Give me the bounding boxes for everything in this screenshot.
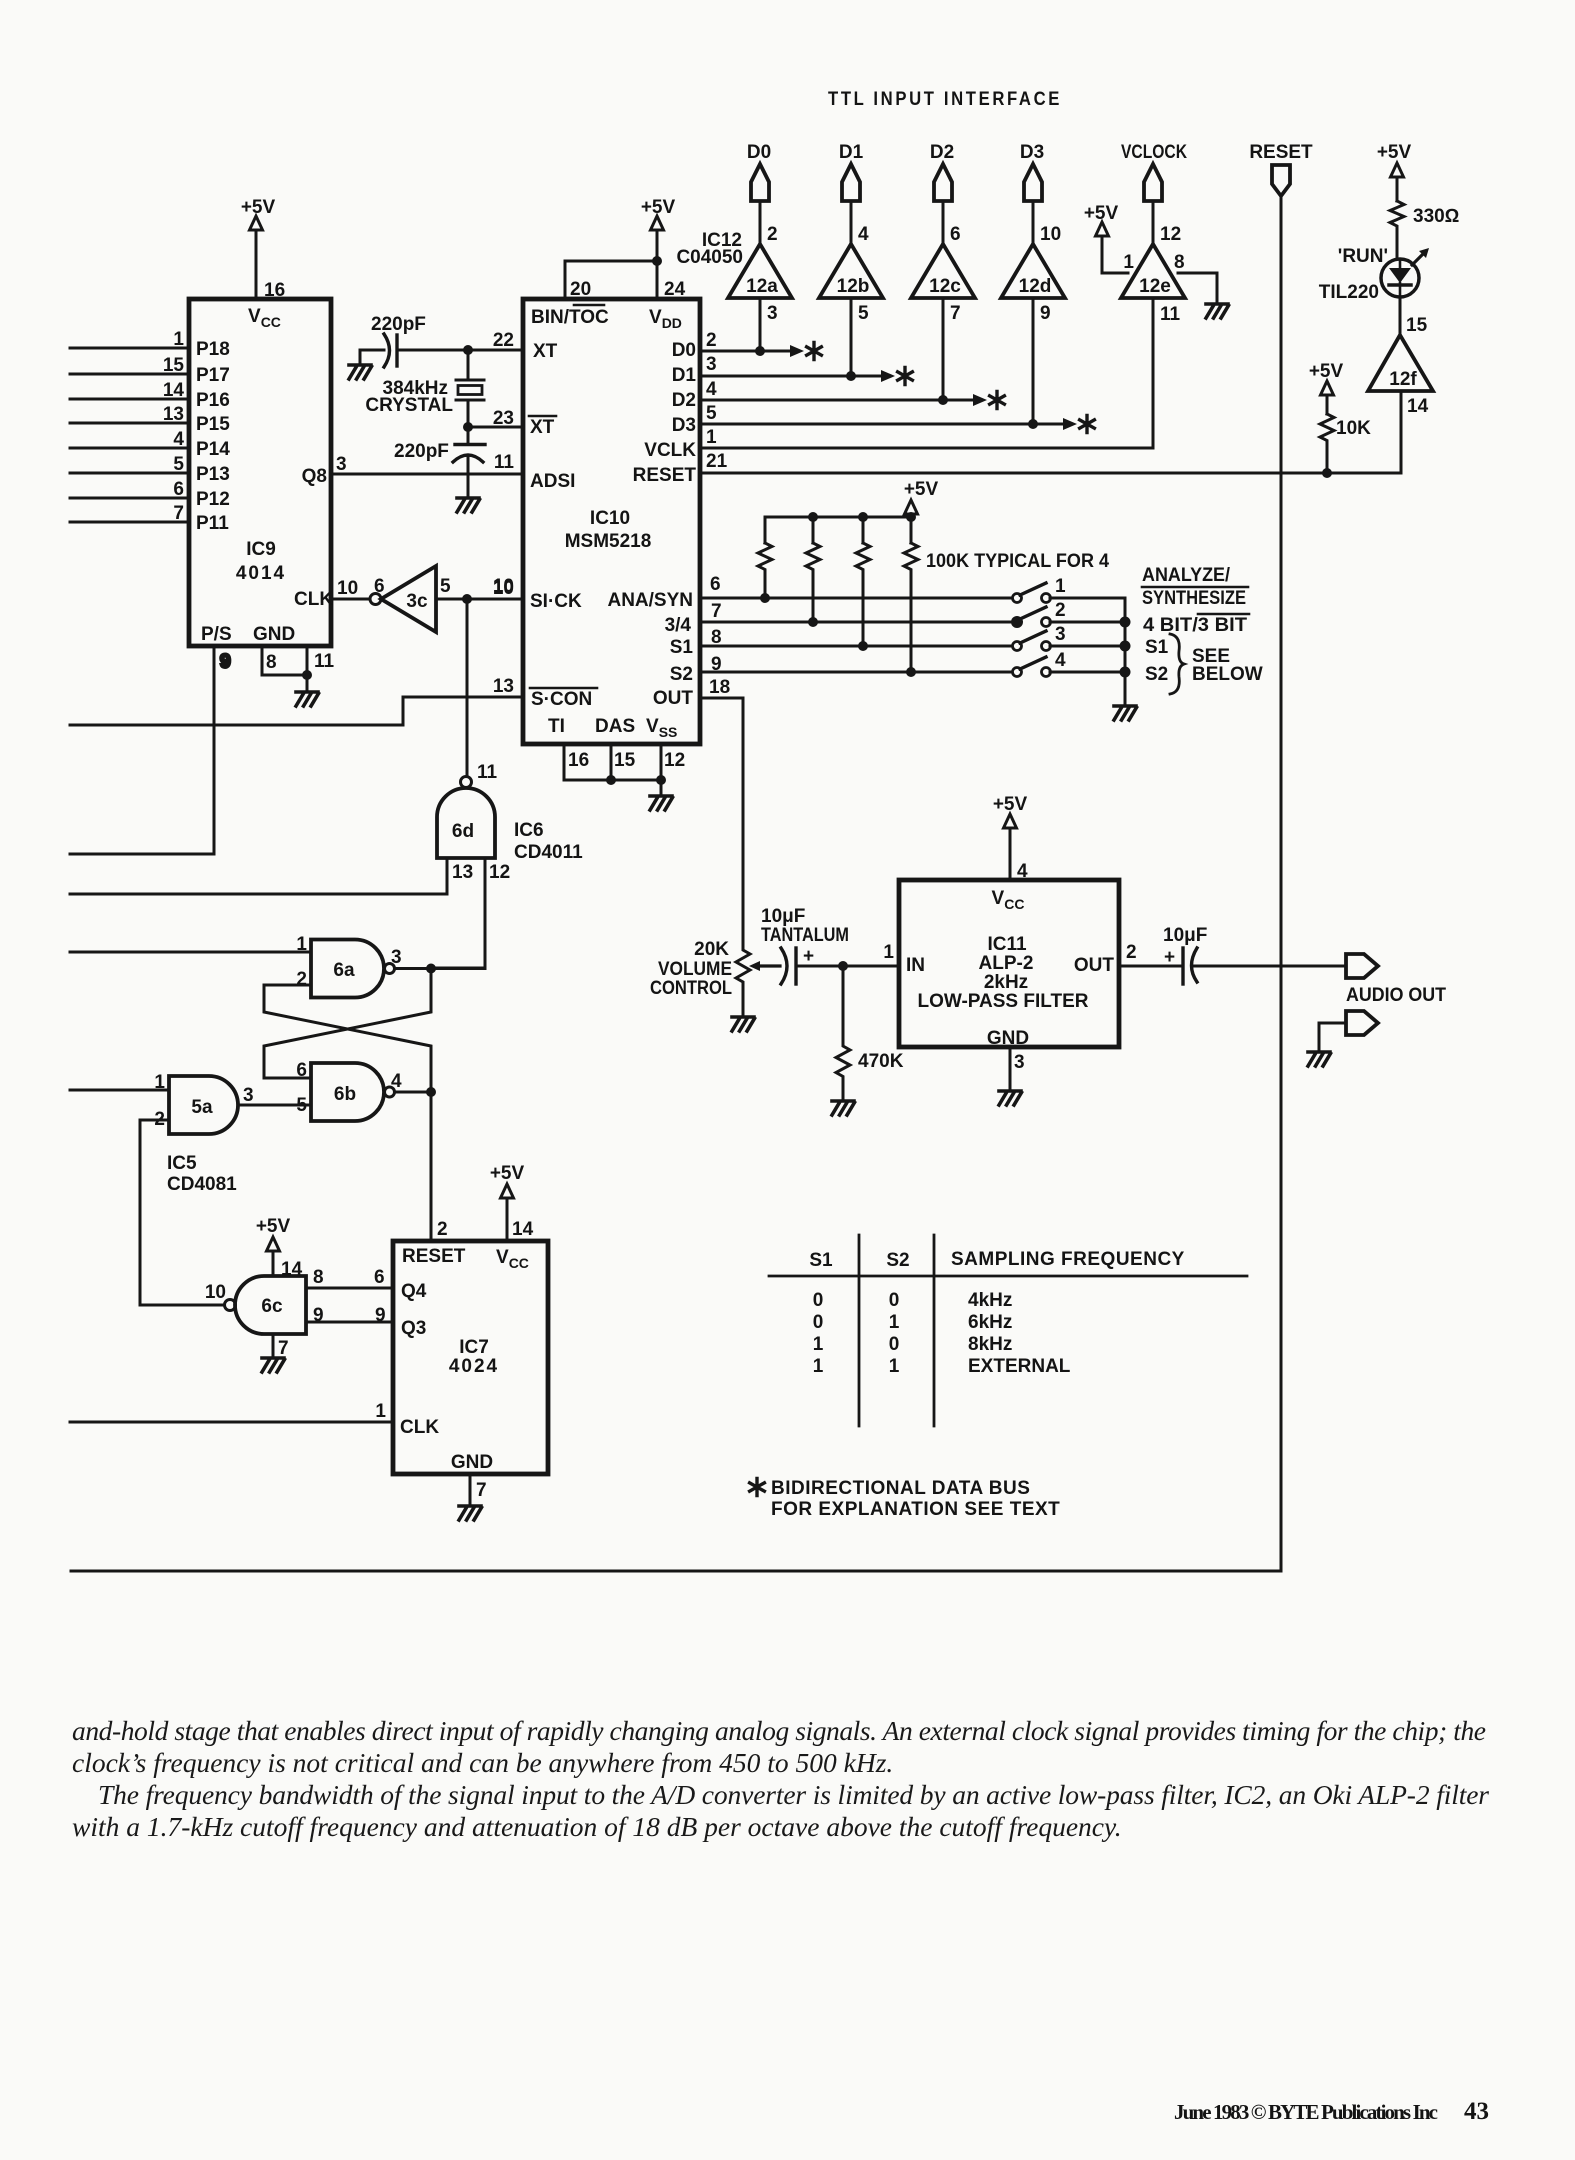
svg-text:CONTROL: CONTROL bbox=[650, 978, 732, 999]
svg-text:IC9: IC9 bbox=[246, 539, 276, 560]
svg-text:ANALYZE/: ANALYZE/ bbox=[1142, 565, 1231, 586]
label 4BIT/3BIT bbox=[1143, 614, 1249, 636]
wire Q8 to ADSI bbox=[331, 454, 523, 475]
wire 6a pin1 to left edge bbox=[70, 951, 311, 954]
svg-text:D3: D3 bbox=[1020, 142, 1044, 163]
svg-text:330Ω: 330Ω bbox=[1413, 206, 1459, 227]
wire SI.CK junction down to 6d output bbox=[466, 599, 469, 776]
svg-text:CRYSTAL: CRYSTAL bbox=[365, 395, 453, 416]
wire switch common bus to ground bbox=[1120, 598, 1131, 706]
switch 1 ANALYZE/SYNTHESIZE bbox=[1013, 576, 1126, 603]
resistor 100K #4 bbox=[904, 543, 918, 672]
svg-text:2: 2 bbox=[296, 969, 307, 990]
svg-text:OUT: OUT bbox=[653, 688, 694, 709]
buffer 12b bbox=[819, 224, 883, 324]
svg-text:5: 5 bbox=[706, 403, 717, 424]
svg-text:1: 1 bbox=[883, 942, 894, 963]
svg-text:6b: 6b bbox=[334, 1084, 356, 1105]
svg-text:S1: S1 bbox=[1145, 637, 1169, 658]
connector AUDIO OUT bbox=[1346, 954, 1446, 1006]
nand gate 6d (IC6) bbox=[437, 762, 510, 883]
svg-text:8: 8 bbox=[1174, 252, 1185, 273]
ground below 220pF top bbox=[349, 365, 372, 379]
svg-text:6: 6 bbox=[374, 576, 385, 597]
resistor 10K bbox=[1320, 414, 1371, 473]
svg-text:D0: D0 bbox=[747, 142, 771, 163]
svg-text:0: 0 bbox=[889, 1290, 900, 1311]
svg-text:5: 5 bbox=[858, 303, 869, 324]
svg-text:VCLK: VCLK bbox=[644, 440, 696, 461]
connector VCLOCK bbox=[1121, 142, 1187, 244]
svg-text:12b: 12b bbox=[837, 276, 870, 297]
svg-text:14: 14 bbox=[1407, 396, 1429, 417]
svg-text:3/4: 3/4 bbox=[665, 615, 692, 636]
svg-text:13: 13 bbox=[493, 676, 514, 697]
svg-text:P17: P17 bbox=[196, 365, 230, 386]
svg-text:1: 1 bbox=[375, 1401, 386, 1422]
svg-text:3c: 3c bbox=[406, 591, 428, 612]
svg-text:3: 3 bbox=[243, 1085, 254, 1106]
connector audio ground return bbox=[1319, 1011, 1378, 1052]
node 6a output bbox=[395, 964, 486, 974]
svg-text:XT: XT bbox=[533, 341, 558, 362]
svg-text:P18: P18 bbox=[196, 339, 230, 360]
svg-text:2: 2 bbox=[706, 330, 717, 351]
wire S.CON pin13 route bbox=[70, 697, 523, 725]
wire data row D3 pin5 bbox=[700, 298, 1094, 433]
node IN junction bbox=[838, 961, 848, 971]
svg-text:'RUN': 'RUN' bbox=[1338, 246, 1388, 267]
paragraph text bbox=[72, 1715, 1489, 1842]
ground VSS pin12 bbox=[650, 796, 673, 810]
svg-text:S2: S2 bbox=[670, 664, 693, 685]
connector RESET bbox=[1249, 142, 1313, 196]
svg-text:GND: GND bbox=[253, 624, 295, 645]
table sampling frequency bbox=[769, 1235, 1247, 1426]
label IC12 C04050 bbox=[676, 230, 743, 268]
svg-text:43: 43 bbox=[1464, 2098, 1489, 2125]
buffer 12c bbox=[911, 224, 975, 324]
wire 3/4 row pin7 bbox=[700, 617, 1013, 627]
svg-text:7: 7 bbox=[711, 601, 722, 622]
svg-text:D0: D0 bbox=[672, 340, 696, 361]
IC9 pin 9 P/S wire bbox=[70, 646, 231, 854]
wire RESET row pin21 to 12f pin14 bbox=[700, 391, 1401, 478]
svg-text:CLK: CLK bbox=[400, 1417, 439, 1438]
wire bottom bus bbox=[71, 1570, 1281, 1573]
svg-text:0: 0 bbox=[813, 1312, 824, 1333]
wire 5a output to 6b pin5 bbox=[238, 1104, 311, 1107]
svg-text:BIDIRECTIONAL DATA BUS: BIDIRECTIONAL DATA BUS bbox=[771, 1478, 1030, 1499]
svg-text:IC11: IC11 bbox=[987, 934, 1027, 955]
wire LED to 12f pin15 bbox=[1400, 297, 1428, 336]
connector D1 bbox=[839, 142, 864, 244]
+5V supply 330ohm bbox=[1377, 142, 1412, 201]
svg-text:VCLOCK: VCLOCK bbox=[1121, 142, 1187, 163]
svg-text:12e: 12e bbox=[1139, 276, 1171, 297]
svg-text:11: 11 bbox=[1160, 304, 1181, 325]
svg-text:IC7: IC7 bbox=[459, 1337, 489, 1358]
connector D2 bbox=[930, 142, 954, 244]
svg-text:VSS: VSS bbox=[646, 716, 677, 740]
svg-text:16: 16 bbox=[264, 280, 285, 301]
wire VCLK row pin1 to 12e pin11 bbox=[700, 298, 1153, 448]
svg-text:ALP-2: ALP-2 bbox=[979, 953, 1034, 974]
svg-text:6kHz: 6kHz bbox=[968, 1312, 1012, 1333]
svg-text:June 1983 © BYTE Publications: June 1983 © BYTE Publications Inc bbox=[1174, 2100, 1438, 2124]
connector D0 bbox=[747, 142, 771, 244]
IC7 pin numbers bbox=[375, 1219, 533, 1501]
svg-text:Q4: Q4 bbox=[401, 1281, 427, 1302]
svg-text:6c: 6c bbox=[261, 1296, 283, 1317]
svg-text:OUT: OUT bbox=[1074, 955, 1115, 976]
ground below 470K bbox=[832, 1101, 855, 1115]
svg-text:D1: D1 bbox=[672, 365, 697, 386]
svg-text:S1: S1 bbox=[809, 1250, 833, 1271]
svg-text:VCC: VCC bbox=[248, 306, 281, 330]
crystal 384kHz bbox=[365, 350, 484, 427]
svg-text:10μF: 10μF bbox=[761, 906, 805, 927]
ground below volume control bbox=[732, 1017, 755, 1031]
svg-text:10: 10 bbox=[205, 1282, 226, 1303]
svg-text:ANA/SYN: ANA/SYN bbox=[607, 590, 693, 611]
svg-text:P/S: P/S bbox=[201, 624, 232, 645]
resistor 100K #3 bbox=[856, 543, 870, 646]
svg-text:S·CON: S·CON bbox=[531, 689, 592, 710]
svg-text:12f: 12f bbox=[1389, 369, 1417, 390]
buffer 12e bbox=[1121, 224, 1185, 325]
svg-text:470K: 470K bbox=[858, 1051, 904, 1072]
+5V supply pullup rail bbox=[904, 479, 939, 517]
svg-text:+5V: +5V bbox=[641, 197, 676, 218]
svg-text:22: 22 bbox=[493, 330, 514, 351]
svg-text:CLK: CLK bbox=[294, 589, 333, 610]
node 6b output bbox=[395, 1087, 437, 1097]
svg-text:1: 1 bbox=[1055, 576, 1066, 597]
svg-text:XT: XT bbox=[530, 417, 555, 438]
svg-text:D2: D2 bbox=[672, 390, 696, 411]
footer bbox=[1174, 2098, 1489, 2125]
svg-text:2: 2 bbox=[437, 1219, 448, 1240]
svg-text:P12: P12 bbox=[196, 489, 230, 510]
svg-text:D1: D1 bbox=[839, 142, 864, 163]
svg-text:GND: GND bbox=[451, 1452, 493, 1473]
svg-text:14: 14 bbox=[512, 1219, 534, 1240]
svg-text:0: 0 bbox=[889, 1334, 900, 1355]
svg-text:IC10: IC10 bbox=[590, 508, 630, 529]
svg-text:1: 1 bbox=[813, 1334, 824, 1355]
switch 2 4BIT/3BIT bbox=[1011, 600, 1125, 628]
wire ANA/SYN row pin6 bbox=[700, 593, 1013, 603]
svg-text:20: 20 bbox=[570, 279, 591, 300]
svg-text:AUDIO OUT: AUDIO OUT bbox=[1346, 985, 1446, 1006]
svg-text:P15: P15 bbox=[196, 414, 230, 435]
svg-text:+5V: +5V bbox=[904, 479, 939, 500]
IC7 4024 counter bbox=[393, 1241, 548, 1474]
wire 6c pin8 to IC7 Q4 bbox=[306, 1267, 393, 1288]
ground below 220pF bottom bbox=[457, 498, 480, 512]
svg-text:CD4081: CD4081 bbox=[167, 1174, 237, 1195]
node XT pin22 bbox=[463, 345, 523, 355]
svg-text:S2: S2 bbox=[1145, 664, 1168, 685]
svg-text:100K TYPICAL FOR 4: 100K TYPICAL FOR 4 bbox=[926, 551, 1109, 572]
svg-text:16: 16 bbox=[568, 750, 589, 771]
wire S1 row pin8 bbox=[700, 641, 1013, 651]
svg-text:8kHz: 8kHz bbox=[968, 1334, 1012, 1355]
+5V supply IC11 pin4 bbox=[993, 794, 1028, 880]
svg-text:BIN/TOC: BIN/TOC bbox=[531, 307, 609, 328]
svg-text:IC6: IC6 bbox=[514, 820, 544, 841]
svg-text:RESET: RESET bbox=[633, 465, 697, 486]
svg-text:4 BIT/3 BIT: 4 BIT/3 BIT bbox=[1143, 615, 1247, 636]
svg-text:CD4011: CD4011 bbox=[514, 842, 583, 863]
capacitor 10uF output bbox=[1119, 925, 1346, 984]
svg-text:SAMPLING FREQUENCY: SAMPLING FREQUENCY bbox=[951, 1249, 1185, 1270]
svg-text:GND: GND bbox=[987, 1028, 1029, 1049]
svg-text:D3: D3 bbox=[672, 415, 696, 436]
svg-text:4: 4 bbox=[706, 379, 717, 400]
wire S2 row pin9 bbox=[700, 667, 1013, 677]
svg-text:TANTALUM: TANTALUM bbox=[761, 925, 849, 946]
label ANALYZE/SYNTHESIZE bbox=[1142, 565, 1248, 609]
svg-text:1: 1 bbox=[706, 427, 717, 448]
note bidirectional data bus bbox=[750, 1478, 1061, 1520]
svg-text:3: 3 bbox=[391, 947, 402, 968]
wire 5a pin2 to 6c output bbox=[140, 1120, 225, 1305]
label S1 S2 SEE BELOW bbox=[1145, 634, 1263, 694]
svg-text:P11: P11 bbox=[196, 513, 229, 534]
wire RESET vertical bus bbox=[1280, 196, 1283, 1571]
svg-text:5: 5 bbox=[440, 576, 451, 597]
svg-text:VDD: VDD bbox=[649, 307, 682, 331]
+5V supply IC10 pins 20/24 bbox=[565, 197, 675, 299]
svg-text:4024: 4024 bbox=[449, 1356, 499, 1377]
svg-text:S1: S1 bbox=[670, 637, 694, 658]
svg-text:6: 6 bbox=[296, 1060, 307, 1081]
svg-text:SYNTHESIZE: SYNTHESIZE bbox=[1142, 588, 1246, 609]
ground 6c pin7 bbox=[262, 1334, 289, 1372]
nand gate 6c bbox=[205, 1267, 324, 1334]
svg-text:18: 18 bbox=[709, 677, 730, 698]
svg-text:10μF: 10μF bbox=[1163, 925, 1207, 946]
svg-text:4014: 4014 bbox=[236, 563, 286, 584]
svg-text:S2: S2 bbox=[886, 1250, 909, 1271]
svg-text:10: 10 bbox=[337, 578, 358, 599]
svg-text:10: 10 bbox=[1040, 224, 1061, 245]
svg-text:+5V: +5V bbox=[1309, 361, 1344, 382]
svg-text:12a: 12a bbox=[746, 276, 778, 297]
buffer 12a bbox=[728, 224, 792, 324]
capacitor 10uF tantalum bbox=[761, 906, 849, 984]
svg-text:12: 12 bbox=[1160, 224, 1181, 245]
svg-text:10: 10 bbox=[493, 576, 514, 597]
svg-text:9: 9 bbox=[220, 652, 231, 673]
svg-text:TTL INPUT INTERFACE: TTL INPUT INTERFACE bbox=[828, 89, 1062, 110]
svg-text:VCC: VCC bbox=[992, 888, 1025, 912]
svg-text:11: 11 bbox=[477, 762, 498, 783]
wire OUT pin18 to volume control bbox=[700, 698, 743, 947]
svg-text:SI·CK: SI·CK bbox=[530, 591, 582, 612]
resistor 330ohm bbox=[1390, 201, 1459, 229]
wire SR latch crossover bbox=[264, 969, 431, 1093]
IC9 input wires P18-P11 bbox=[70, 348, 189, 522]
svg-text:12c: 12c bbox=[929, 276, 961, 297]
nand gate 6a bbox=[296, 934, 401, 998]
svg-text:2: 2 bbox=[1055, 600, 1066, 621]
+5V supply 10K bbox=[1309, 361, 1344, 414]
wire IC7 CLK pin1 to left edge bbox=[70, 1421, 393, 1424]
svg-text:6a: 6a bbox=[333, 960, 355, 981]
svg-text:9: 9 bbox=[375, 1305, 386, 1326]
wire IN node to IC11 bbox=[843, 965, 899, 968]
inverter 3c bbox=[331, 566, 523, 632]
svg-text:The frequency bandwidth of the: The frequency bandwidth of the signal in… bbox=[98, 1779, 1489, 1810]
capacitor C 220pF bottom bbox=[394, 427, 485, 498]
svg-text:FOR EXPLANATION SEE TEXT: FOR EXPLANATION SEE TEXT bbox=[771, 1499, 1060, 1520]
wire data row D0 pin2 bbox=[700, 298, 821, 360]
svg-text:8: 8 bbox=[313, 1267, 324, 1288]
svg-text:4: 4 bbox=[391, 1071, 402, 1092]
svg-text:LOW-PASS FILTER: LOW-PASS FILTER bbox=[918, 991, 1089, 1012]
svg-text:TI: TI bbox=[548, 716, 565, 737]
svg-text:BELOW: BELOW bbox=[1192, 664, 1263, 685]
ground below switches bbox=[1114, 706, 1137, 720]
wire 6d pin12 down to 6a output node bbox=[431, 858, 485, 968]
svg-text:1: 1 bbox=[813, 1356, 824, 1377]
IC10 pin numbers bbox=[493, 279, 730, 771]
LED TIL220 'RUN' bbox=[1319, 229, 1429, 303]
svg-text:12: 12 bbox=[664, 750, 685, 771]
svg-text:6: 6 bbox=[710, 574, 721, 595]
svg-text:3: 3 bbox=[767, 303, 778, 324]
wire 6c pin9 to IC7 Q3 bbox=[306, 1305, 393, 1326]
potentiometer 20K volume control bbox=[650, 939, 780, 1017]
svg-text:11: 11 bbox=[314, 651, 335, 672]
svg-text:TIL220: TIL220 bbox=[1319, 282, 1379, 303]
svg-text:0: 0 bbox=[813, 1290, 824, 1311]
node XTbar pin23 bbox=[463, 422, 523, 432]
svg-text:with a 1.7-kHz cutoff frequenc: with a 1.7-kHz cutoff frequency and atte… bbox=[72, 1811, 1122, 1842]
svg-text:220pF: 220pF bbox=[371, 314, 426, 335]
svg-text:DAS: DAS bbox=[595, 716, 635, 737]
ground IC11 pin3 bbox=[999, 1047, 1022, 1105]
svg-text:14: 14 bbox=[281, 1259, 303, 1280]
svg-text:3: 3 bbox=[1014, 1052, 1025, 1073]
wire 6b output down to IC7 pin2 bbox=[430, 1092, 433, 1241]
IC9 left pin numbers bbox=[163, 329, 185, 524]
svg-text:and-hold stage that enables di: and-hold stage that enables direct input… bbox=[72, 1715, 1486, 1746]
resistor 100K #2 bbox=[806, 543, 820, 622]
wire 6d pin13 to left edge bbox=[70, 858, 447, 894]
svg-text:6: 6 bbox=[374, 1267, 385, 1288]
svg-text:MSM5218: MSM5218 bbox=[565, 531, 652, 552]
svg-text:6: 6 bbox=[950, 224, 961, 245]
wire data row D1 pin3 bbox=[700, 298, 912, 385]
svg-text:220pF: 220pF bbox=[394, 441, 449, 462]
svg-text:ADSI: ADSI bbox=[530, 471, 575, 492]
svg-text:3: 3 bbox=[1055, 624, 1066, 645]
svg-text:VOLUME: VOLUME bbox=[658, 959, 732, 980]
svg-text:1: 1 bbox=[889, 1312, 900, 1333]
svg-text:15: 15 bbox=[614, 750, 636, 771]
svg-text:12: 12 bbox=[489, 862, 510, 883]
buffer 12f bbox=[1368, 335, 1433, 417]
svg-text:4: 4 bbox=[1017, 861, 1028, 882]
and gate 5a (IC5) bbox=[154, 1072, 253, 1134]
svg-text:RESET: RESET bbox=[1249, 142, 1313, 163]
svg-text:12d: 12d bbox=[1019, 276, 1052, 297]
svg-text:Q8: Q8 bbox=[302, 466, 327, 487]
svg-text:2: 2 bbox=[767, 224, 778, 245]
svg-text:2: 2 bbox=[1126, 942, 1137, 963]
svg-text:EXTERNAL: EXTERNAL bbox=[968, 1356, 1071, 1377]
IC9 ground pins 8,11 bbox=[262, 646, 335, 706]
IC11 ALP-2 low-pass filter bbox=[899, 880, 1119, 1049]
resistor 470K bbox=[836, 966, 904, 1101]
svg-text:9: 9 bbox=[1040, 303, 1051, 324]
svg-text:1: 1 bbox=[1123, 252, 1134, 273]
svg-text:+5V: +5V bbox=[241, 197, 276, 218]
buffer 12d bbox=[1001, 224, 1065, 324]
ground audio return bbox=[1308, 1052, 1331, 1066]
svg-text:1: 1 bbox=[889, 1356, 900, 1377]
svg-text:4: 4 bbox=[858, 224, 869, 245]
svg-text:C04050: C04050 bbox=[676, 247, 743, 268]
wire data row D2 pin4 bbox=[700, 298, 1004, 409]
node SI.CK junction bbox=[462, 594, 472, 604]
ground 12e pin8 bbox=[1178, 273, 1229, 318]
svg-text:7: 7 bbox=[476, 1480, 487, 1501]
svg-text:IN: IN bbox=[906, 955, 925, 976]
svg-text:P16: P16 bbox=[196, 390, 230, 411]
IC10 MSM5218 bbox=[523, 299, 700, 744]
nand gate 6b bbox=[296, 1060, 402, 1121]
svg-text:11: 11 bbox=[494, 452, 515, 473]
svg-text:24: 24 bbox=[664, 279, 686, 300]
IC9 4014 shift register bbox=[189, 299, 333, 646]
svg-text:5a: 5a bbox=[191, 1097, 213, 1118]
svg-text:10K: 10K bbox=[1336, 418, 1371, 439]
svg-text:7: 7 bbox=[950, 303, 961, 324]
+5V supply IC9 pin 16 bbox=[241, 197, 285, 301]
svg-text:7: 7 bbox=[278, 1338, 289, 1359]
svg-text:15: 15 bbox=[1406, 315, 1428, 336]
IC11 pin numbers bbox=[883, 861, 1136, 1073]
svg-text:20K: 20K bbox=[694, 939, 729, 960]
svg-text:8: 8 bbox=[266, 652, 277, 673]
svg-text:P13: P13 bbox=[196, 464, 230, 485]
svg-text:clock’s frequency is not criti: clock’s frequency is not critical and ca… bbox=[72, 1747, 893, 1778]
svg-text:3: 3 bbox=[706, 354, 717, 375]
+5V supply IC7 pin14 bbox=[490, 1163, 525, 1241]
switch 3 S1 bbox=[1013, 624, 1126, 651]
svg-text:RESET: RESET bbox=[402, 1246, 466, 1267]
ground IC7 pin7 bbox=[459, 1474, 482, 1520]
resistor 100K #1 bbox=[758, 543, 772, 598]
wire TI DAS VSS rail bbox=[564, 744, 666, 796]
capacitor C 220pF top bbox=[360, 314, 523, 367]
switch 4 S2 bbox=[1013, 650, 1126, 677]
+5V supply 12e pin1 bbox=[1084, 203, 1128, 273]
svg-text:P14: P14 bbox=[196, 439, 230, 460]
+5V supply 6c pin14 bbox=[256, 1216, 303, 1280]
svg-text:IC5: IC5 bbox=[167, 1153, 197, 1174]
connector D3 bbox=[1020, 142, 1044, 244]
svg-text:3: 3 bbox=[336, 454, 347, 475]
svg-text:6d: 6d bbox=[452, 821, 474, 842]
wire pullup rail bbox=[765, 512, 916, 543]
svg-text:2kHz: 2kHz bbox=[984, 972, 1028, 993]
